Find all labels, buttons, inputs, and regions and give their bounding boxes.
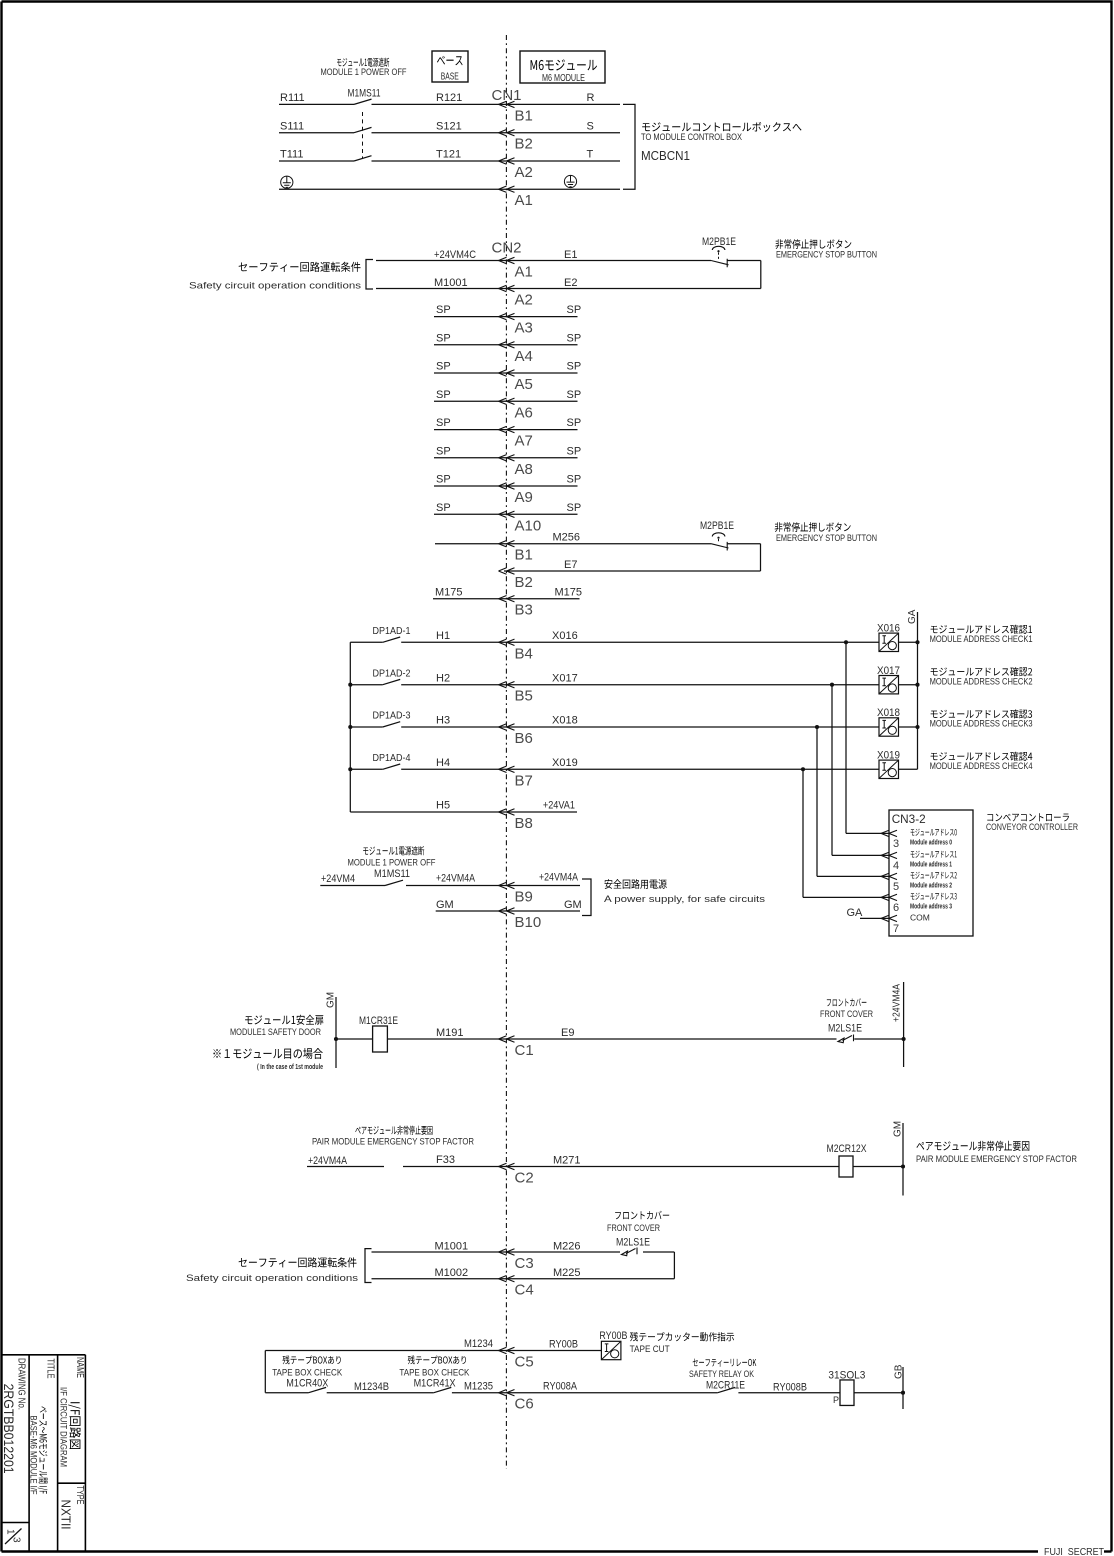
svg-text:TO MODULE CONTROL BOX: TO MODULE CONTROL BOX — [641, 132, 743, 143]
svg-text:C4: C4 — [515, 1282, 534, 1299]
svg-text:P: P — [833, 1395, 839, 1405]
svg-text:EMERGENCY STOP BUTTON: EMERGENCY STOP BUTTON — [776, 250, 877, 261]
svg-text:DP1AD-2: DP1AD-2 — [373, 667, 411, 679]
svg-text:Safety circuit operation condi: Safety circuit operation conditions — [189, 281, 361, 292]
svg-text:SP: SP — [436, 389, 451, 401]
svg-text:M2CR12X: M2CR12X — [827, 1143, 868, 1155]
svg-text:M226: M226 — [553, 1241, 581, 1253]
svg-text:A6: A6 — [515, 404, 533, 421]
svg-text:H4: H4 — [436, 757, 450, 769]
svg-text:+24VM4A: +24VM4A — [539, 872, 579, 884]
svg-text:R121: R121 — [436, 92, 462, 104]
svg-text:MODULE 1 POWER OFF: MODULE 1 POWER OFF — [348, 858, 436, 869]
svg-text:X016: X016 — [552, 630, 578, 642]
svg-text:M1235: M1235 — [464, 1381, 493, 1393]
svg-text:GB: GB — [894, 1364, 905, 1379]
svg-text:X017: X017 — [877, 665, 900, 677]
svg-text:C6: C6 — [515, 1396, 534, 1413]
svg-text:MODULE ADDRESS CHECK4: MODULE ADDRESS CHECK4 — [930, 761, 1033, 771]
svg-text:B9: B9 — [515, 889, 533, 906]
svg-text:FUJI SECRET: FUJI SECRET — [1044, 1547, 1104, 1556]
svg-text:A9: A9 — [515, 489, 533, 506]
svg-text:E7: E7 — [564, 559, 577, 571]
svg-text:M1234: M1234 — [464, 1338, 493, 1350]
svg-text:+24VM4C: +24VM4C — [434, 249, 476, 261]
svg-text:T111: T111 — [280, 149, 303, 161]
svg-text:A2: A2 — [515, 164, 533, 181]
svg-text:M1CR31E: M1CR31E — [359, 1015, 398, 1027]
svg-text:3: 3 — [893, 838, 899, 850]
svg-text:Module address 0: Module address 0 — [910, 839, 952, 846]
svg-text:M256: M256 — [553, 532, 581, 544]
svg-text:GM: GM — [893, 1121, 904, 1137]
svg-text:X019: X019 — [552, 757, 578, 769]
svg-text:B7: B7 — [515, 772, 533, 789]
svg-text:DP1AD-4: DP1AD-4 — [373, 752, 411, 764]
svg-text:SP: SP — [436, 361, 451, 373]
svg-text:3: 3 — [11, 1537, 22, 1543]
svg-text:GM: GM — [436, 899, 454, 911]
svg-text:4: 4 — [893, 860, 899, 872]
svg-text:S121: S121 — [436, 120, 462, 132]
svg-text:R111: R111 — [280, 92, 305, 104]
svg-text:Module address 1: Module address 1 — [910, 861, 952, 868]
svg-text:A7: A7 — [515, 433, 533, 450]
svg-text:T121: T121 — [436, 149, 461, 161]
svg-text:H1: H1 — [436, 630, 450, 642]
svg-text:+24VM4A: +24VM4A — [436, 873, 476, 885]
svg-text:MODULE ADDRESS CHECK3: MODULE ADDRESS CHECK3 — [930, 719, 1033, 729]
svg-text:H2: H2 — [436, 672, 450, 684]
svg-text:EMERGENCY STOP BUTTON: EMERGENCY STOP BUTTON — [776, 533, 877, 544]
svg-text:SP: SP — [436, 304, 451, 316]
svg-text:M2PB1E: M2PB1E — [702, 236, 736, 248]
svg-text:B2: B2 — [515, 574, 533, 591]
svg-text:FRONT COVER: FRONT COVER — [820, 1009, 873, 1020]
svg-text:BASE-M6 MODULE I/F: BASE-M6 MODULE I/F — [28, 1416, 39, 1495]
svg-text:SP: SP — [567, 502, 582, 514]
svg-text:PAIR MODULE EMERGENCY STOP FAC: PAIR MODULE EMERGENCY STOP FACTOR — [916, 1154, 1077, 1165]
svg-text:SAFETY RELAY OK: SAFETY RELAY OK — [689, 1369, 755, 1380]
svg-text:MCBCN1: MCBCN1 — [641, 148, 690, 163]
svg-text:MODULE ADDRESS CHECK1: MODULE ADDRESS CHECK1 — [930, 634, 1033, 644]
svg-text:C5: C5 — [515, 1354, 534, 1371]
svg-text:E9: E9 — [561, 1027, 574, 1039]
svg-text:B5: B5 — [515, 688, 533, 705]
svg-text:M2LS1E: M2LS1E — [616, 1237, 650, 1249]
svg-text:MODULE 1 POWER OFF: MODULE 1 POWER OFF — [321, 67, 407, 78]
svg-text:NXTII: NXTII — [59, 1500, 74, 1530]
svg-text:SP: SP — [567, 332, 582, 344]
svg-text:A1: A1 — [515, 264, 533, 281]
svg-text:B10: B10 — [515, 914, 542, 931]
svg-text:SP: SP — [567, 445, 582, 457]
svg-text:M1001: M1001 — [434, 277, 468, 289]
svg-text:1: 1 — [5, 1529, 16, 1535]
svg-text:SP: SP — [567, 474, 582, 486]
svg-text:DP1AD-3: DP1AD-3 — [373, 710, 411, 722]
svg-text:X018: X018 — [877, 707, 900, 719]
svg-text:C2: C2 — [515, 1170, 534, 1187]
svg-text:S: S — [587, 120, 594, 132]
svg-text:GA: GA — [907, 609, 918, 624]
svg-text:SP: SP — [567, 361, 582, 373]
svg-text:X016: X016 — [877, 623, 900, 635]
svg-text:Module address 2: Module address 2 — [910, 882, 952, 889]
svg-text:I/F CIRCUIT DIAGRAM: I/F CIRCUIT DIAGRAM — [58, 1387, 69, 1467]
svg-text:+24VM4A: +24VM4A — [308, 1155, 348, 1167]
svg-text:M175: M175 — [555, 587, 583, 599]
svg-text:A5: A5 — [515, 376, 533, 393]
svg-text:B2: B2 — [515, 136, 533, 153]
svg-text:RY00B: RY00B — [549, 1339, 578, 1351]
svg-text:A8: A8 — [515, 461, 533, 478]
svg-text:Safety circuit operation condi: Safety circuit operation conditions — [186, 1273, 358, 1284]
svg-text:MODULE ADDRESS CHECK2: MODULE ADDRESS CHECK2 — [930, 676, 1033, 686]
svg-text:PAIR MODULE EMERGENCY STOP FAC: PAIR MODULE EMERGENCY STOP FACTOR — [312, 1137, 474, 1148]
svg-text:SP: SP — [567, 389, 582, 401]
svg-text:FRONT COVER: FRONT COVER — [607, 1223, 660, 1234]
svg-text:TYPE: TYPE — [74, 1486, 85, 1505]
svg-text:B6: B6 — [515, 730, 533, 747]
svg-text:CN3-2: CN3-2 — [892, 812, 926, 826]
svg-text:M1MS11: M1MS11 — [374, 868, 410, 880]
svg-text:RY008B: RY008B — [773, 1382, 807, 1394]
svg-text:M271: M271 — [553, 1155, 581, 1167]
svg-text:( In the case of 1st module: ( In the case of 1st module — [257, 1064, 323, 1071]
svg-text:S111: S111 — [280, 120, 304, 132]
svg-text:GA: GA — [847, 907, 864, 919]
svg-text:GM: GM — [326, 992, 337, 1008]
svg-text:M191: M191 — [436, 1027, 464, 1039]
svg-text:M6 MODULE: M6 MODULE — [542, 73, 585, 84]
svg-text:E1: E1 — [564, 249, 577, 261]
svg-text:+24VA1: +24VA1 — [543, 800, 575, 812]
svg-text:A1: A1 — [515, 192, 533, 209]
svg-text:6: 6 — [893, 902, 899, 914]
svg-text:GM: GM — [564, 899, 582, 911]
svg-text:SP: SP — [567, 304, 582, 316]
svg-text:TAPE CUT: TAPE CUT — [630, 1344, 670, 1355]
svg-text:31SOL3: 31SOL3 — [828, 1370, 865, 1382]
svg-text:M2CR11E: M2CR11E — [706, 1380, 745, 1392]
svg-text:BASE: BASE — [441, 72, 459, 83]
svg-text:H3: H3 — [436, 715, 450, 727]
svg-text:A power supply, for safe circu: A power supply, for safe circuits — [604, 894, 765, 905]
svg-text:NAME: NAME — [74, 1357, 85, 1378]
svg-text:+24VM4: +24VM4 — [321, 873, 355, 885]
svg-text:A2: A2 — [515, 292, 533, 309]
svg-text:M2LS1E: M2LS1E — [828, 1023, 862, 1035]
svg-text:SP: SP — [436, 332, 451, 344]
svg-text:A10: A10 — [515, 517, 542, 534]
svg-text:M1CR41X: M1CR41X — [414, 1378, 457, 1390]
svg-text:B8: B8 — [515, 815, 533, 832]
svg-text:M225: M225 — [553, 1267, 581, 1279]
svg-text:COM: COM — [910, 912, 930, 922]
svg-text:RY008A: RY008A — [543, 1381, 578, 1393]
svg-text:CN2: CN2 — [492, 240, 522, 257]
svg-text:7: 7 — [893, 923, 899, 935]
svg-text:C1: C1 — [515, 1042, 534, 1059]
svg-text:T: T — [587, 149, 594, 161]
svg-text:B1: B1 — [515, 547, 533, 564]
svg-text:C3: C3 — [515, 1255, 534, 1272]
svg-text:M1234B: M1234B — [354, 1381, 389, 1393]
svg-text:E2: E2 — [564, 277, 577, 289]
svg-text:B1: B1 — [515, 107, 533, 124]
svg-text:R: R — [587, 92, 595, 104]
svg-text:M1MS11: M1MS11 — [348, 88, 381, 100]
svg-text:X017: X017 — [552, 672, 578, 684]
svg-text:M175: M175 — [435, 587, 463, 599]
svg-text:SP: SP — [436, 445, 451, 457]
svg-text:B4: B4 — [515, 645, 533, 662]
svg-text:A3: A3 — [515, 320, 533, 337]
svg-text:DP1AD-1: DP1AD-1 — [373, 625, 411, 637]
svg-text:CONVEYOR CONTROLLER: CONVEYOR CONTROLLER — [986, 822, 1078, 832]
svg-text:SP: SP — [436, 502, 451, 514]
svg-text:F33: F33 — [436, 1154, 455, 1166]
svg-text:X019: X019 — [877, 750, 900, 762]
svg-text:X018: X018 — [552, 715, 578, 727]
svg-text:MODULE1 SAFETY DOOR: MODULE1 SAFETY DOOR — [230, 1027, 321, 1038]
svg-text:M2PB1E: M2PB1E — [700, 520, 734, 532]
svg-text:Module address 3: Module address 3 — [910, 903, 952, 910]
svg-text:2RGTBB012201: 2RGTBB012201 — [1, 1384, 17, 1474]
svg-text:SP: SP — [436, 417, 451, 429]
svg-text:M1CR40X: M1CR40X — [286, 1378, 329, 1390]
svg-text:M1001: M1001 — [435, 1241, 469, 1253]
svg-text:TITLE: TITLE — [45, 1359, 56, 1379]
svg-text:M1002: M1002 — [435, 1267, 469, 1279]
svg-text:SP: SP — [567, 417, 582, 429]
svg-text:SP: SP — [436, 474, 451, 486]
svg-text:RY00B: RY00B — [599, 1330, 627, 1342]
svg-text:B3: B3 — [515, 602, 533, 619]
svg-text:A4: A4 — [515, 348, 533, 365]
svg-text:5: 5 — [893, 881, 899, 893]
svg-text:+24VM4A: +24VM4A — [892, 984, 903, 1022]
svg-text:H5: H5 — [436, 800, 450, 812]
